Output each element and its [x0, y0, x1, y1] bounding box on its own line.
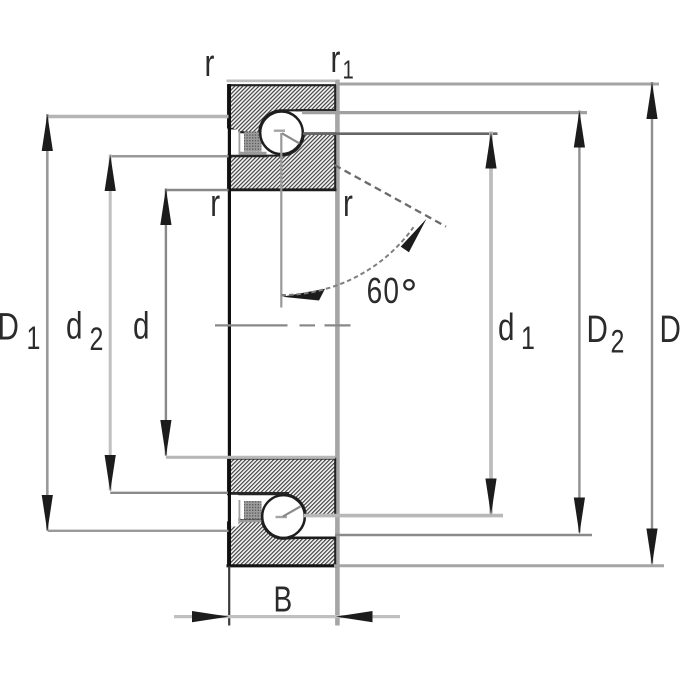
- svg-text:1: 1: [342, 55, 353, 84]
- svg-text:B: B: [273, 579, 292, 619]
- svg-text:60: 60: [367, 271, 401, 311]
- svg-text:d: d: [66, 305, 82, 347]
- svg-text:1: 1: [26, 321, 40, 357]
- svg-text:D: D: [659, 309, 680, 351]
- svg-text:D: D: [587, 309, 608, 351]
- svg-text:d: d: [133, 305, 149, 347]
- svg-text:D: D: [0, 306, 19, 348]
- svg-text:2: 2: [89, 322, 103, 358]
- svg-text:r: r: [205, 43, 215, 85]
- svg-text:1: 1: [521, 321, 535, 357]
- svg-text:r: r: [343, 183, 353, 225]
- svg-text:r: r: [330, 39, 340, 81]
- svg-text:r: r: [210, 183, 220, 225]
- svg-text:d: d: [498, 307, 514, 349]
- svg-text:2: 2: [611, 325, 625, 361]
